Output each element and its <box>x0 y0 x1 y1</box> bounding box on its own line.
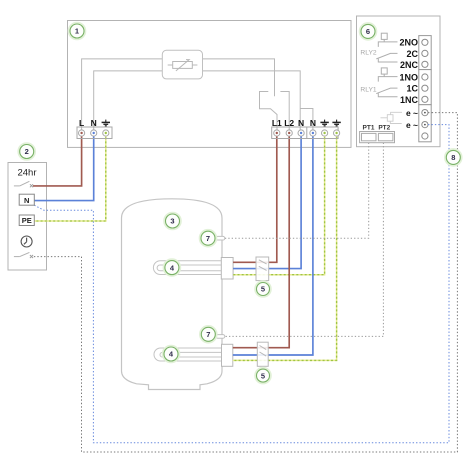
wire L internal box1 <box>82 59 275 130</box>
earth symbol right block 1 <box>320 120 328 126</box>
brown wire L to timer <box>33 133 82 186</box>
svg-text:N: N <box>91 118 97 128</box>
earth symbol right block 2 <box>332 120 340 126</box>
numbered circle 8 <box>445 149 462 166</box>
thermostat probe upper <box>216 236 225 240</box>
strip terminal 1C <box>422 85 428 91</box>
PT1 connector <box>362 133 377 140</box>
svg-text:6: 6 <box>366 27 370 36</box>
PT connector outer <box>360 132 395 143</box>
terminal N3 <box>298 130 304 136</box>
svg-text:1NC: 1NC <box>400 95 419 105</box>
svg-text:PE: PE <box>22 216 32 225</box>
surge component box <box>162 50 202 79</box>
terminal L1 <box>274 130 280 136</box>
svg-text:e ~: e ~ <box>406 108 418 118</box>
svg-text:RLY1: RLY1 <box>360 87 377 94</box>
terminal L <box>79 130 85 136</box>
relay RLY2 coil <box>381 33 387 39</box>
numbered circle 1 <box>69 23 86 40</box>
grey dotted wire PT1 to upper probe <box>225 143 369 239</box>
changeover switch contact to L1 <box>260 92 278 131</box>
wire N branch to second N terminal <box>300 109 313 131</box>
conduit 5 lower <box>257 342 268 366</box>
blue wire N to timer N <box>34 133 93 201</box>
immersion flange upper <box>221 258 233 280</box>
svg-text:3: 3 <box>170 217 174 226</box>
immersion element upper <box>153 261 230 275</box>
svg-text:2NC: 2NC <box>400 60 419 70</box>
svg-text:L: L <box>79 118 84 128</box>
wire N internal box1 <box>94 71 301 130</box>
earth wire to PE <box>34 133 106 221</box>
timer box 2 <box>8 163 47 271</box>
svg-text:1C: 1C <box>406 84 418 94</box>
timer N box <box>19 194 34 205</box>
numbered circle 4 upper <box>164 259 181 276</box>
terminal E <box>103 130 109 136</box>
svg-text:1: 1 <box>75 27 79 36</box>
numbered circle 2 <box>18 143 35 160</box>
relay RLY1 contact <box>376 74 397 97</box>
varistor symbol <box>168 60 198 71</box>
terminal E2 <box>334 130 340 136</box>
left terminal block <box>77 127 112 139</box>
right terminal block <box>272 127 338 139</box>
brown wire L2 to lower heater <box>233 133 289 348</box>
timer clock icon <box>21 236 32 247</box>
numbered circle 3 <box>164 213 181 230</box>
switch 2 contact x <box>30 255 33 258</box>
relay RLY2 contact <box>376 39 397 62</box>
black dotted wire timer switch to e terminal <box>34 113 458 452</box>
svg-text:PT2: PT2 <box>378 124 390 131</box>
consumer unit box 1 <box>68 21 352 148</box>
svg-text:5: 5 <box>261 285 265 294</box>
svg-text:7: 7 <box>206 330 210 339</box>
strip terminal e1 <box>422 110 428 116</box>
timer PE box <box>19 215 34 226</box>
svg-text:5: 5 <box>261 371 265 380</box>
svg-text:e ~: e ~ <box>406 120 418 130</box>
numbered circle 7 lower <box>200 326 217 343</box>
earth wire to lower heater <box>233 133 337 360</box>
thermostat probe lower <box>216 335 225 339</box>
terminal N <box>91 130 97 136</box>
relay module box 6 <box>357 16 441 147</box>
right terminal block divider <box>306 127 308 139</box>
cylinder 3 <box>122 199 223 390</box>
blue wire N to upper heater <box>233 133 301 269</box>
svg-text:L2: L2 <box>284 118 294 128</box>
svg-text:N: N <box>24 196 29 205</box>
svg-text:N: N <box>310 118 316 128</box>
e supply component <box>381 112 403 123</box>
blue wire N2 to lower heater <box>233 133 313 355</box>
immersion element lower <box>154 348 230 361</box>
switch 1 contact x <box>30 184 33 187</box>
strip terminal 2C <box>422 50 428 56</box>
svg-text:7: 7 <box>206 234 210 243</box>
grey dotted wire PT2 to lower probe <box>225 143 384 337</box>
terminal strip box6 <box>419 36 431 142</box>
svg-text:1NO: 1NO <box>399 72 418 82</box>
strip terminal 2NC <box>422 61 428 67</box>
earth symbol left block <box>102 120 110 126</box>
svg-text:2NO: 2NO <box>399 38 418 48</box>
terminal N4 <box>310 130 316 136</box>
svg-text:24hr: 24hr <box>17 168 36 179</box>
strip terminal 1NO <box>422 74 428 80</box>
conduit 5 upper <box>256 257 269 281</box>
numbered circle 7 upper <box>200 230 217 247</box>
changeover switch contact to L2 <box>280 92 289 131</box>
numbered circle 4 lower <box>163 346 180 363</box>
svg-text:RLY2: RLY2 <box>360 50 377 57</box>
svg-text:8: 8 <box>451 153 455 162</box>
e1 dotted stub <box>428 112 432 114</box>
e2 dotted stub <box>428 124 432 126</box>
svg-text:PT1: PT1 <box>363 124 375 131</box>
timer switch 1 <box>14 181 30 186</box>
brown wire L1 to upper heater <box>233 133 277 262</box>
strip terminal e2 <box>422 122 428 128</box>
blue dotted wire N-sense to e terminal <box>34 125 449 443</box>
numbered circle 5 lower <box>255 368 271 384</box>
svg-text:2: 2 <box>25 147 29 156</box>
strip terminal 2NO <box>422 39 428 45</box>
immersion flange lower <box>222 344 233 366</box>
strip terminal 1NC <box>422 96 428 102</box>
numbered circle 5 upper <box>255 281 271 297</box>
svg-text:N: N <box>298 118 304 128</box>
timer switch 2 <box>14 252 30 256</box>
numbered circle 6 <box>360 23 377 40</box>
PT2 connector <box>378 133 393 140</box>
terminal E1 <box>322 130 328 136</box>
terminal L2 <box>286 130 292 136</box>
strip terminal spare <box>422 133 428 139</box>
svg-text:2C: 2C <box>406 49 418 59</box>
svg-text:L1: L1 <box>272 118 282 128</box>
relay RLY1 coil <box>381 68 387 74</box>
earth wire to upper heater <box>233 133 325 275</box>
